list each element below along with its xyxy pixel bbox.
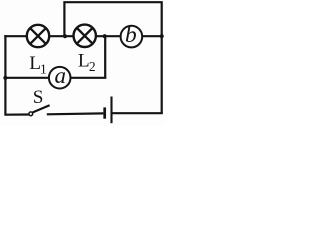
wire: ammeter row horizontal from left rail to drop corner: [5, 77, 106, 79]
node A junction dot (between L1 and L2, riser tap): [63, 34, 67, 38]
svg-text:1: 1: [40, 61, 47, 76]
switch S: contact circle: [29, 112, 33, 116]
svg-text:S: S: [33, 87, 44, 108]
wire: drop from node B down to ammeter row: [104, 36, 106, 78]
battery: short thick negative plate: [103, 107, 106, 118]
battery: long thin positive plate: [110, 97, 112, 124]
lamp L1: [27, 25, 49, 47]
switch S: lever: [33, 105, 50, 112]
lamp L2: [74, 25, 96, 47]
wire: riser from node A, top rail, right rail down to battery row: [64, 2, 161, 113]
wire: bottom-right wire from battery to right rail: [112, 112, 162, 114]
meter a (circle with italic a): [49, 67, 71, 89]
node: right-rail junction dot: [160, 34, 164, 38]
wire: bottom wire from switch to battery: [47, 112, 104, 115]
node: left-rail junction dot (ammeter row tap): [3, 76, 7, 80]
svg-text:2: 2: [89, 59, 96, 74]
wire: middle horizontal rail through lamps and meter b: [4, 35, 161, 37]
svg-text:a: a: [55, 63, 67, 88]
node B junction dot (between L2 and meter b, drop tap): [103, 34, 107, 38]
svg-text:b: b: [125, 22, 137, 48]
meter b (circle with italic b): [121, 26, 143, 48]
wire: left rail down + bottom-left wire to switch: [5, 35, 29, 115]
